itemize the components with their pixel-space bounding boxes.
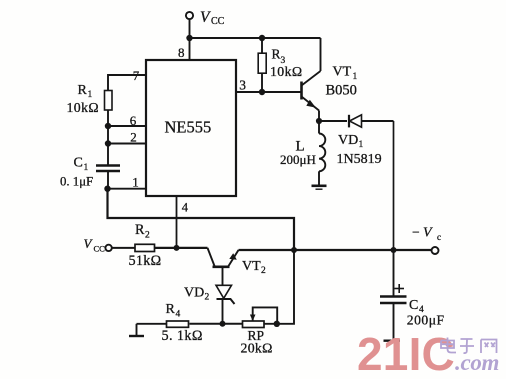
wire pin 7 to R1 (108, 75, 146, 91)
pin 2 (130, 130, 137, 145)
label C4 plus (395, 284, 405, 293)
terminal -Vc (432, 247, 439, 254)
svg-text:1: 1 (88, 90, 93, 100)
wire VD1 to right rail (361, 120, 394, 122)
pin 7 (133, 68, 140, 83)
wire C4 top (393, 250, 395, 296)
svg-text:R: R (166, 302, 176, 317)
svg-text:1: 1 (359, 140, 364, 150)
svg-text:VD: VD (184, 286, 204, 301)
resistor R1 (105, 91, 113, 111)
ground under L (312, 186, 327, 189)
wire R1 bottom (107, 110, 109, 165)
node VD2 R4 (220, 321, 226, 327)
svg-text:VT: VT (333, 65, 352, 80)
capacitor C1 (96, 166, 120, 172)
node pin 1 (104, 186, 110, 192)
svg-text:c: c (437, 232, 441, 242)
svg-text:10kΩ: 10kΩ (270, 64, 303, 79)
node RP wiper right (274, 321, 280, 327)
terminal Vcc (186, 12, 193, 19)
pin 4 (182, 200, 189, 214)
wire node to VD1 (319, 120, 347, 122)
svg-text:VD: VD (338, 133, 358, 148)
inductor L 200uH (319, 121, 325, 185)
label Vcc R2 (84, 236, 106, 254)
pin 8 (178, 45, 185, 60)
svg-text:R: R (78, 83, 88, 98)
svg-text:10kΩ: 10kΩ (67, 100, 100, 115)
node pin4 R2 (174, 245, 180, 251)
ground left (129, 324, 144, 336)
diode VD1 (349, 115, 362, 128)
svg-text:C: C (74, 156, 83, 171)
resistor R3 (258, 53, 266, 73)
wire VD2 to R4 line (222, 299, 224, 324)
svg-text:−: − (412, 225, 420, 240)
wire C4 bottom (393, 303, 395, 340)
node pin 2 (105, 140, 111, 146)
node R3 pin3 (259, 89, 265, 95)
watermark 21IC (357, 328, 455, 380)
svg-text:5. 1kΩ: 5. 1kΩ (162, 328, 203, 344)
transistor Q1 VT1 (302, 71, 321, 111)
wire pin 1 (108, 188, 147, 190)
svg-text:CC: CC (94, 244, 106, 254)
resistor R4 (167, 321, 189, 327)
node C4 junction (391, 247, 397, 253)
svg-text:51kΩ: 51kΩ (129, 253, 162, 269)
svg-text:2: 2 (130, 130, 137, 145)
svg-text:0. 1μF: 0. 1μF (60, 175, 93, 189)
watermark chinese dian zi wang (441, 338, 497, 354)
pin 3 (239, 77, 246, 92)
node R3 top (259, 35, 265, 41)
svg-text:V: V (423, 226, 433, 241)
label C4 200uF (407, 298, 445, 328)
label R3 10kOhm (270, 47, 303, 80)
label NE555 (165, 118, 212, 137)
wire VT2 base to VD2 (222, 267, 224, 285)
svg-text:R: R (272, 47, 281, 62)
svg-text:B050: B050 (326, 83, 357, 99)
svg-text:3: 3 (239, 77, 246, 92)
svg-text:200μH: 200μH (280, 152, 316, 167)
label VD1 1N5819 (337, 133, 382, 167)
wire Vcc to pin 8 (189, 19, 191, 60)
ground bar under C4 (384, 340, 401, 342)
node VT1 emitter / L junction (316, 118, 322, 124)
label VD2 (184, 286, 210, 303)
label RP 20kOhm (241, 328, 273, 356)
svg-text:21IC: 21IC (357, 328, 455, 379)
svg-text:2: 2 (205, 293, 210, 303)
label Vcc (200, 9, 225, 27)
wire RP to feedback rail (264, 250, 294, 324)
wire pin 2 (108, 143, 146, 145)
svg-text:200μF: 200μF (407, 313, 445, 328)
wire R2 to node (155, 247, 208, 249)
label L 200uH (280, 139, 316, 168)
svg-text:1: 1 (353, 72, 358, 82)
wire pin 3 to VT1 base (236, 91, 301, 93)
svg-text:4: 4 (182, 200, 189, 214)
label VT2 (242, 259, 266, 276)
wire pin1 node down and across to VT2 emitter node (108, 189, 295, 250)
svg-text:1: 1 (84, 163, 89, 173)
wire VT2 emitter to output (239, 249, 432, 251)
terminal Vcc (R2 input) (105, 245, 111, 251)
wire R4 to RP (190, 323, 244, 325)
svg-text:20kΩ: 20kΩ (241, 341, 273, 356)
capacitor C4 (380, 297, 407, 304)
node Vcc rail (186, 35, 192, 41)
wire Vcc rail (190, 37, 321, 39)
diode VD2 zener (216, 285, 235, 304)
svg-text:4: 4 (176, 310, 181, 320)
svg-text:V: V (84, 236, 94, 251)
label R2 51kOhm (129, 222, 162, 269)
label -Vc (412, 225, 441, 243)
svg-text:VT: VT (242, 259, 261, 274)
wire pin 6 (108, 125, 146, 127)
wire terminal to R2 (112, 247, 135, 249)
transistor Q2 VT2 (208, 248, 239, 267)
resistor R2 (135, 244, 155, 251)
svg-text:C: C (409, 298, 418, 313)
potentiometer RP (243, 307, 278, 327)
wire C1 bottom (107, 171, 109, 189)
label R1 10kOhm (67, 83, 100, 115)
svg-text:V: V (200, 9, 211, 26)
wire VT1 collector (320, 38, 322, 71)
svg-text:1N5819: 1N5819 (337, 152, 382, 167)
wire right rail down (393, 121, 395, 250)
svg-text:1: 1 (132, 174, 139, 189)
node pin 6 (105, 123, 111, 129)
IC U1 NE555 (146, 60, 236, 196)
wire VT1 emitter down (318, 111, 320, 122)
wire ground to R4 (137, 323, 167, 325)
node feedback junction (291, 247, 297, 253)
pin 6 (130, 113, 137, 128)
svg-text:CC: CC (211, 16, 225, 27)
svg-text:NE555: NE555 (165, 118, 212, 137)
wire pin 4 down (176, 196, 178, 248)
svg-text:2: 2 (145, 231, 150, 241)
svg-text:8: 8 (178, 45, 185, 60)
wire R3 bottom (261, 73, 263, 92)
svg-text:.com: .com (455, 350, 499, 375)
label VT1 B050 (326, 65, 358, 99)
svg-text:2: 2 (261, 266, 266, 276)
watermark dot com (455, 350, 499, 375)
label R4 5.1kOhm (162, 302, 203, 344)
wire R3 top (261, 38, 263, 53)
pin 1 (132, 174, 139, 189)
svg-text:R: R (135, 222, 145, 238)
label C1 0.1uF (60, 156, 93, 189)
